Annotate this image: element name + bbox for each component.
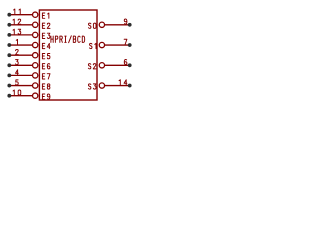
pin number 12	[13, 19, 21, 24]
pin number 9	[124, 19, 127, 24]
pin 9 inversion bubble	[99, 22, 104, 27]
pin 5 inversion bubble	[33, 83, 38, 88]
pin name E9	[42, 94, 50, 99]
pin 6 open end dot	[128, 63, 132, 67]
pin number 3	[16, 60, 19, 65]
pin name E1	[42, 13, 48, 18]
pin name E6	[42, 64, 50, 69]
pin number 14	[119, 80, 127, 85]
pin 3 open end dot	[7, 63, 11, 67]
pin 11 inversion bubble	[33, 12, 38, 17]
pin 2 (input E5) wire	[9, 54, 32, 56]
pin name S0	[88, 23, 96, 28]
pin 7 open end dot	[128, 43, 132, 47]
pin 7 inversion bubble	[99, 42, 104, 47]
pin number 2	[16, 50, 19, 55]
pin 9 (output S0) wire	[105, 24, 130, 26]
pin 13 inversion bubble	[33, 32, 38, 37]
pin 2 open end dot	[7, 53, 11, 57]
pin 11 open end dot	[7, 13, 11, 17]
pin number 1	[16, 39, 17, 44]
pin 1 open end dot	[7, 43, 11, 47]
pin 6 (output S2) wire	[105, 64, 130, 66]
pin 7 (output S1) wire	[105, 44, 130, 46]
pin name S1	[89, 43, 96, 48]
pin 14 (output S3) wire	[105, 85, 130, 87]
pin 10 (input E9) wire	[9, 95, 32, 97]
pin number 6	[124, 59, 127, 64]
IC body U1 (74147 HPRI/BCD priority encoder)	[39, 10, 97, 100]
pin 14 open end dot	[128, 84, 132, 88]
pin 9 open end dot	[128, 23, 132, 27]
pin number 4	[15, 70, 18, 75]
pin 4 inversion bubble	[33, 73, 38, 78]
pin 1 (input E4) wire	[9, 44, 32, 46]
pin 14 inversion bubble	[99, 83, 104, 88]
pin 5 open end dot	[7, 84, 11, 88]
pin 12 open end dot	[7, 23, 11, 27]
pin number 13	[13, 29, 21, 34]
pin 13 open end dot	[7, 33, 11, 37]
pin 11 (input E1) wire	[9, 14, 32, 16]
pin name E8	[42, 84, 50, 89]
label HPRI/BCD	[51, 36, 85, 43]
pin name E2	[42, 23, 50, 28]
pin number 11	[14, 9, 21, 14]
pin 5 (input E8) wire	[9, 85, 32, 87]
pin number 5	[16, 80, 19, 85]
pin 13 (input E3) wire	[9, 34, 32, 36]
pin name E3	[42, 33, 50, 38]
pin number 10	[13, 90, 21, 95]
pin name S2	[88, 64, 96, 69]
pin 4 (input E7) wire	[9, 74, 32, 76]
pin 12 inversion bubble	[33, 22, 38, 27]
pin 6 inversion bubble	[99, 63, 104, 68]
pin 3 (input E6) wire	[9, 64, 32, 66]
pin 3 inversion bubble	[33, 63, 38, 68]
pin 2 inversion bubble	[33, 53, 38, 58]
pin name E7	[42, 74, 50, 79]
pin 1 inversion bubble	[33, 42, 38, 47]
pin number 7	[124, 39, 127, 44]
pin 10 inversion bubble	[33, 93, 38, 98]
pin name E5	[42, 54, 50, 59]
pin name S3	[88, 84, 96, 89]
pin name E4	[42, 43, 50, 48]
pin 4 open end dot	[7, 74, 11, 78]
pin 12 (input E2) wire	[9, 24, 32, 26]
pin 10 open end dot	[7, 94, 11, 98]
